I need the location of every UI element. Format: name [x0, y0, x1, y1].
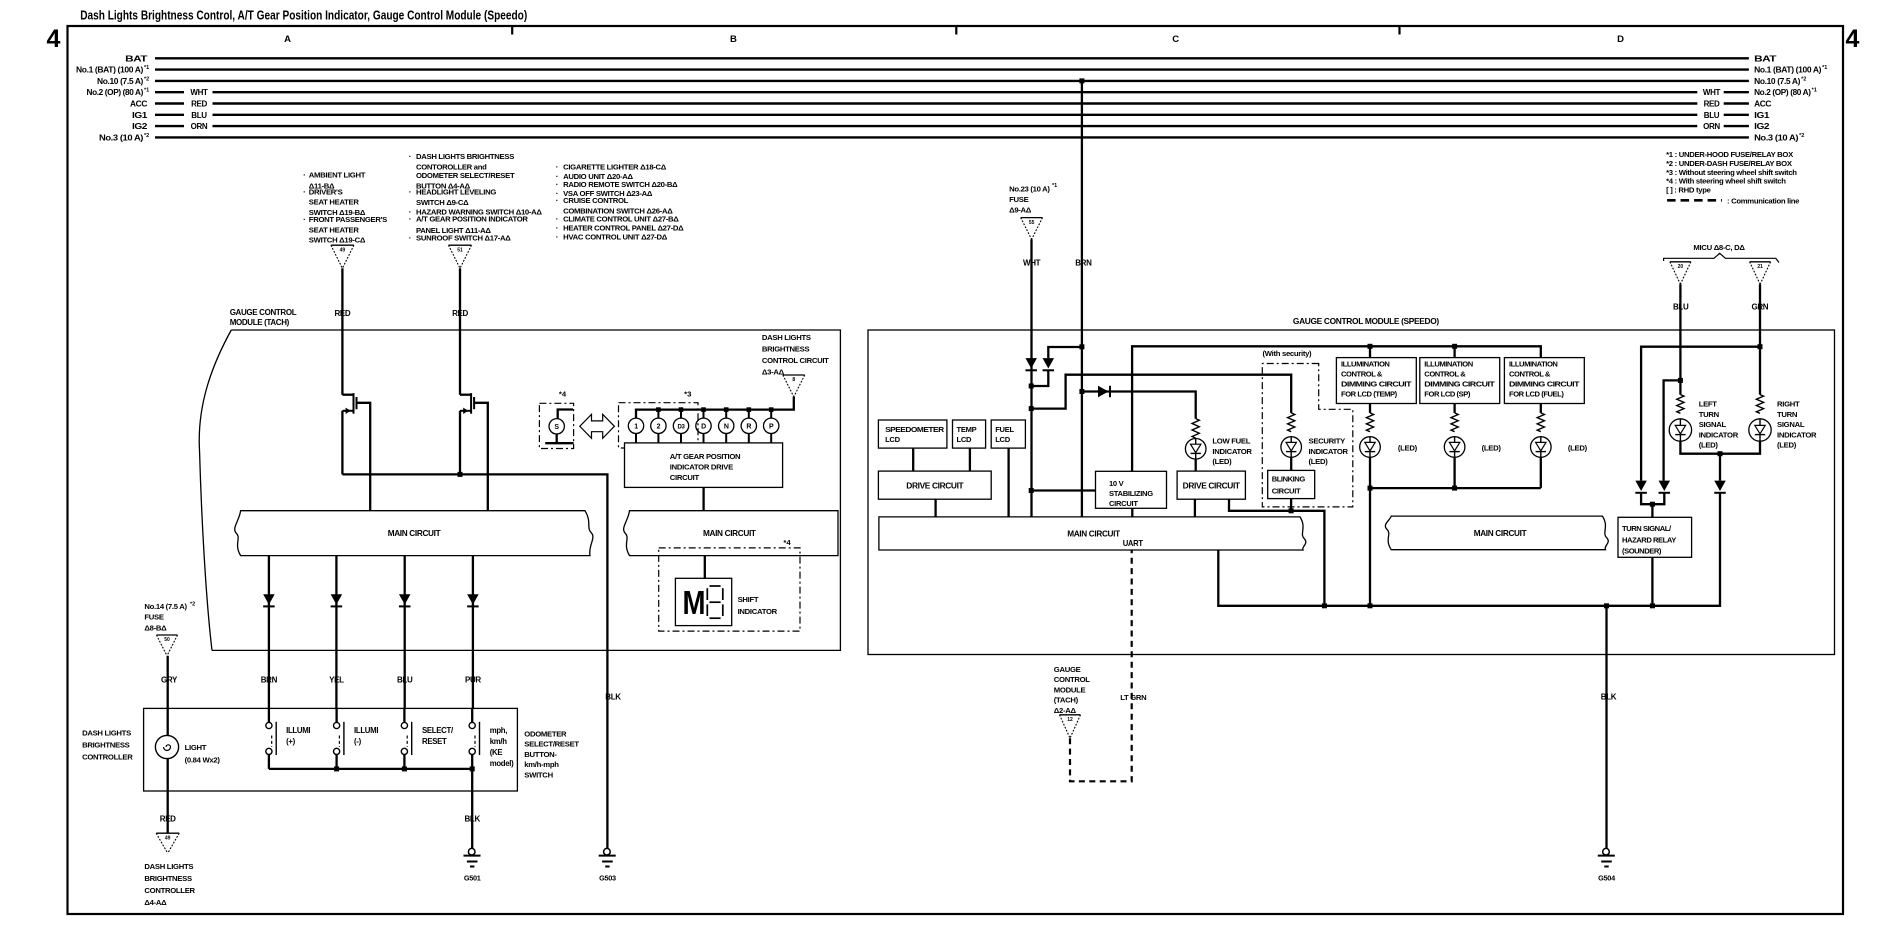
svg-text:HEADLIGHT LEVELING: HEADLIGHT LEVELING — [416, 187, 496, 196]
svg-text:55: 55 — [1029, 220, 1035, 226]
svg-text:GAUGE CONTROL MODULE (SPEEDO): GAUGE CONTROL MODULE (SPEEDO) — [1293, 316, 1439, 326]
svg-text:*2: *2 — [1801, 76, 1806, 82]
svg-text:IG1: IG1 — [132, 111, 148, 120]
svg-text:IG2: IG2 — [1754, 122, 1770, 131]
svg-text:*1: *1 — [144, 65, 149, 71]
svg-text:4: 4 — [1846, 25, 1860, 53]
svg-text:BUTTON-: BUTTON- — [524, 750, 557, 759]
svg-text:·: · — [556, 180, 559, 189]
svg-text:S: S — [554, 424, 559, 431]
svg-text:No.23 (10 A): No.23 (10 A) — [1009, 185, 1050, 194]
svg-text:LCD: LCD — [885, 435, 901, 444]
svg-text:No.1 (BAT) (100 A): No.1 (BAT) (100 A) — [76, 66, 144, 75]
svg-text:A/T GEAR POSITION INDICATOR: A/T GEAR POSITION INDICATOR — [416, 214, 528, 223]
svg-text:SELECT/: SELECT/ — [422, 726, 454, 735]
svg-text:*1 : UNDER-HOOD FUSE/RELAY BOX: *1 : UNDER-HOOD FUSE/RELAY BOX — [1666, 150, 1794, 159]
svg-text:INDICATOR: INDICATOR — [738, 607, 778, 616]
svg-text:No.3 (10 A): No.3 (10 A) — [99, 133, 144, 142]
svg-text:DIMMING CIRCUIT: DIMMING CIRCUIT — [1341, 380, 1412, 389]
svg-text:CONTROL: CONTROL — [1054, 675, 1091, 684]
svg-text:: Communication line: : Communication line — [1727, 196, 1800, 205]
svg-text:*4: *4 — [559, 390, 567, 399]
svg-text:CONTROL &: CONTROL & — [1341, 370, 1383, 379]
svg-text:BLU: BLU — [191, 111, 207, 120]
svg-text:Δ9-AΔ: Δ9-AΔ — [1009, 206, 1032, 215]
svg-text:(TACH): (TACH) — [1054, 696, 1079, 705]
svg-text:IG1: IG1 — [1754, 111, 1770, 120]
svg-text:BRN: BRN — [1075, 259, 1092, 268]
svg-text:MAIN CIRCUIT: MAIN CIRCUIT — [1474, 528, 1528, 538]
svg-text:ACC: ACC — [1754, 100, 1772, 109]
svg-text:YEL: YEL — [329, 675, 344, 684]
svg-text:RED: RED — [334, 309, 350, 318]
svg-text:*4: *4 — [783, 538, 791, 547]
svg-text:*3: *3 — [684, 389, 691, 398]
svg-text:*2: *2 — [144, 76, 149, 82]
svg-text:*3 : Without steering wheel sh: *3 : Without steering wheel shift switch — [1666, 168, 1797, 177]
svg-text:SELECT/RESET: SELECT/RESET — [524, 740, 579, 749]
svg-text:INDICATOR: INDICATOR — [1777, 430, 1817, 439]
svg-text:SPEEDOMETER: SPEEDOMETER — [885, 425, 945, 434]
svg-text:DASH LIGHTS: DASH LIGHTS — [762, 333, 811, 342]
svg-text:CONTROLLER: CONTROLLER — [144, 886, 195, 895]
svg-text:CIRCUIT: CIRCUIT — [1272, 487, 1301, 496]
svg-text:49: 49 — [340, 247, 346, 253]
svg-text:M: M — [683, 584, 706, 621]
svg-text:ILLUMI: ILLUMI — [354, 726, 378, 735]
svg-text:BRIGHTNESS: BRIGHTNESS — [144, 874, 192, 883]
svg-text:TURN: TURN — [1699, 410, 1720, 419]
svg-text:BAT: BAT — [125, 54, 147, 63]
svg-text:(-): (-) — [354, 737, 362, 746]
svg-text:ORN: ORN — [1703, 122, 1720, 131]
svg-text:ILLUMI: ILLUMI — [286, 726, 310, 735]
svg-text:DRIVE CIRCUIT: DRIVE CIRCUIT — [1183, 481, 1241, 490]
svg-text:SWITCH: SWITCH — [524, 770, 553, 779]
svg-text:10 V: 10 V — [1109, 479, 1125, 488]
svg-text:LCD: LCD — [995, 435, 1011, 444]
svg-text:D: D — [1617, 34, 1624, 45]
svg-text:C: C — [1172, 34, 1179, 45]
svg-text:(0.84 Wx2): (0.84 Wx2) — [185, 756, 221, 765]
svg-text:No.3 (10 A): No.3 (10 A) — [1754, 133, 1799, 142]
svg-text:CIRCUIT: CIRCUIT — [1109, 499, 1138, 508]
svg-text:*2: *2 — [1799, 133, 1804, 139]
svg-text:LIGHT: LIGHT — [185, 743, 207, 752]
svg-text:BRN: BRN — [261, 675, 278, 684]
svg-text:1: 1 — [634, 424, 638, 431]
svg-text:(SOUNDER): (SOUNDER) — [1622, 547, 1662, 556]
svg-text:RED: RED — [1704, 100, 1720, 109]
svg-text:RED: RED — [452, 309, 468, 318]
svg-text:SUNROOF SWITCH Δ17-AΔ: SUNROOF SWITCH Δ17-AΔ — [416, 234, 511, 243]
svg-text:Δ8-BΔ: Δ8-BΔ — [144, 624, 167, 633]
svg-text:Δ3-AΔ: Δ3-AΔ — [762, 367, 785, 376]
svg-text:CONTOROLLER and: CONTOROLLER and — [416, 162, 487, 171]
svg-text:TURN: TURN — [1777, 410, 1798, 419]
svg-text:12: 12 — [1067, 717, 1073, 723]
svg-text:GAUGE CONTROL: GAUGE CONTROL — [230, 308, 297, 317]
svg-text:·: · — [556, 215, 559, 224]
svg-text:HAZARD RELAY: HAZARD RELAY — [1622, 535, 1676, 544]
svg-text:SWITCH Δ19-CΔ: SWITCH Δ19-CΔ — [309, 235, 366, 244]
svg-text:GAUGE: GAUGE — [1054, 665, 1081, 674]
svg-text:*1: *1 — [1052, 183, 1057, 189]
svg-text:FUSE: FUSE — [144, 613, 163, 622]
svg-text:km/h-mph: km/h-mph — [524, 760, 559, 769]
svg-text:DRIVE CIRCUIT: DRIVE CIRCUIT — [906, 481, 964, 490]
svg-text:·: · — [556, 232, 559, 241]
svg-text:BRIGHTNESS: BRIGHTNESS — [82, 741, 130, 750]
svg-text:A/T GEAR POSITION: A/T GEAR POSITION — [670, 452, 741, 461]
svg-text:BLU: BLU — [1704, 111, 1720, 120]
svg-text:LEFT: LEFT — [1699, 400, 1718, 409]
svg-text:TEMP: TEMP — [957, 425, 977, 434]
svg-text:CRUISE CONTROL: CRUISE CONTROL — [563, 196, 629, 205]
svg-text:·: · — [303, 215, 306, 224]
svg-text:·: · — [409, 234, 412, 243]
svg-text:SECURITY: SECURITY — [1309, 437, 1346, 446]
svg-text:CONTROL &: CONTROL & — [1424, 370, 1466, 379]
svg-text:LT GRN: LT GRN — [1120, 693, 1147, 702]
svg-text:P: P — [769, 424, 774, 431]
svg-text:WHT: WHT — [190, 88, 208, 97]
svg-text:BLK: BLK — [464, 814, 480, 823]
svg-text:2: 2 — [657, 424, 661, 431]
svg-text:*4 : With steering wheel shift: *4 : With steering wheel shift switch — [1666, 177, 1786, 186]
svg-text:[ ] : RHD type: [ ] : RHD type — [1666, 186, 1712, 195]
svg-text:*2 : UNDER-DASH FUSE/RELAY BOX: *2 : UNDER-DASH FUSE/RELAY BOX — [1666, 159, 1793, 168]
svg-text:MODULE: MODULE — [1054, 685, 1086, 694]
svg-text:G503: G503 — [599, 873, 616, 882]
svg-text:ILLUMINATION: ILLUMINATION — [1341, 360, 1389, 369]
svg-text:LOW FUEL: LOW FUEL — [1212, 437, 1250, 446]
svg-text:AMBIENT LIGHT: AMBIENT LIGHT — [309, 171, 366, 180]
svg-text:(LED): (LED) — [1212, 457, 1232, 466]
svg-text:TURN SIGNAL/: TURN SIGNAL/ — [1622, 524, 1672, 533]
svg-text:PUR: PUR — [465, 675, 481, 684]
svg-text:·: · — [409, 152, 412, 161]
svg-text:FOR LCD (SP): FOR LCD (SP) — [1424, 390, 1471, 399]
svg-text:No.1 (BAT) (100 A): No.1 (BAT) (100 A) — [1754, 66, 1822, 75]
svg-text:HEATER CONTROL PANEL Δ27-DΔ: HEATER CONTROL PANEL Δ27-DΔ — [563, 224, 684, 233]
svg-text:D: D — [701, 424, 706, 431]
svg-text:No.2 (OP) (80 A): No.2 (OP) (80 A) — [87, 88, 144, 97]
svg-text:SIGNAL: SIGNAL — [1699, 420, 1727, 429]
svg-text:INDICATOR: INDICATOR — [1309, 447, 1349, 456]
svg-text:21: 21 — [1757, 264, 1763, 270]
svg-text:(LED): (LED) — [1482, 444, 1502, 453]
svg-text:N: N — [724, 424, 729, 431]
svg-text:DIMMING CIRCUIT: DIMMING CIRCUIT — [1509, 380, 1580, 389]
svg-text:·: · — [409, 214, 412, 223]
svg-text:STABILIZING: STABILIZING — [1109, 489, 1153, 498]
svg-text:Δ2-AΔ: Δ2-AΔ — [1054, 706, 1077, 715]
svg-text:(LED): (LED) — [1398, 444, 1418, 453]
svg-text:FUEL: FUEL — [995, 425, 1014, 434]
svg-text:CIRCUIT: CIRCUIT — [670, 473, 700, 482]
svg-text:·: · — [556, 196, 559, 205]
svg-text:ORN: ORN — [191, 122, 208, 131]
svg-text:SEAT HEATER: SEAT HEATER — [309, 225, 360, 234]
svg-text:No.2 (OP) (80 A): No.2 (OP) (80 A) — [1754, 88, 1811, 97]
svg-text:BLU: BLU — [397, 675, 413, 684]
svg-text:DASH LIGHTS: DASH LIGHTS — [144, 862, 193, 871]
svg-text:DASH LIGHTS BRIGHTNESS: DASH LIGHTS BRIGHTNESS — [416, 152, 514, 161]
svg-text:8: 8 — [792, 377, 795, 383]
svg-text:ODOMETER SELECT/RESET: ODOMETER SELECT/RESET — [416, 171, 515, 180]
svg-text:MAIN CIRCUIT: MAIN CIRCUIT — [388, 528, 442, 538]
svg-text:(LED): (LED) — [1309, 457, 1329, 466]
svg-text:*1: *1 — [144, 88, 149, 94]
svg-text:IG2: IG2 — [132, 122, 148, 131]
svg-text:R: R — [746, 424, 751, 431]
svg-text:Δ4-AΔ: Δ4-AΔ — [144, 898, 167, 907]
svg-text:CONTROLLER: CONTROLLER — [82, 753, 133, 762]
svg-text:FOR LCD (FUEL): FOR LCD (FUEL) — [1509, 390, 1564, 399]
svg-text:A: A — [284, 34, 291, 45]
svg-text:*1: *1 — [1812, 88, 1817, 94]
svg-text:FRONT PASSENGER'S: FRONT PASSENGER'S — [309, 215, 387, 224]
svg-text:Dash Lights Brightness Control: Dash Lights Brightness Control, A/T Gear… — [80, 9, 527, 23]
svg-text:(LED): (LED) — [1699, 441, 1719, 450]
svg-text:(With security): (With security) — [1263, 349, 1313, 358]
svg-text:49: 49 — [165, 835, 171, 841]
svg-text:CLIMATE CONTROL UNIT Δ27-BΔ: CLIMATE CONTROL UNIT Δ27-BΔ — [563, 215, 679, 224]
svg-text:BRIGHTNESS: BRIGHTNESS — [762, 345, 810, 354]
svg-text:No.14 (7.5 A): No.14 (7.5 A) — [144, 602, 187, 611]
svg-text:HVAC CONTROL UNIT Δ27-DΔ: HVAC CONTROL UNIT Δ27-DΔ — [563, 232, 668, 241]
svg-text:DRIVER'S: DRIVER'S — [309, 187, 343, 196]
svg-text:mph,: mph, — [490, 726, 508, 735]
svg-text:DASH LIGHTS: DASH LIGHTS — [82, 729, 131, 738]
svg-text:FUSE: FUSE — [1009, 195, 1028, 204]
svg-text:DIMMING CIRCUIT: DIMMING CIRCUIT — [1424, 380, 1495, 389]
svg-text:MAIN CIRCUIT: MAIN CIRCUIT — [703, 528, 757, 538]
svg-text:(LED): (LED) — [1568, 444, 1588, 453]
svg-text:MICU Δ8-C, DΔ: MICU Δ8-C, DΔ — [1693, 243, 1745, 252]
svg-text:4: 4 — [47, 25, 61, 53]
svg-text:FOR LCD (TEMP): FOR LCD (TEMP) — [1341, 390, 1398, 399]
svg-text:ACC: ACC — [130, 100, 148, 109]
svg-text:model): model) — [490, 759, 514, 768]
svg-text:LCD: LCD — [957, 435, 973, 444]
svg-text:G504: G504 — [1598, 873, 1616, 882]
svg-text:UART: UART — [1123, 538, 1144, 548]
svg-text:ILLUMINATION: ILLUMINATION — [1424, 360, 1472, 369]
svg-text:50: 50 — [164, 637, 170, 643]
svg-text:BLK: BLK — [605, 693, 621, 702]
svg-text:·: · — [303, 187, 306, 196]
svg-text:BAT: BAT — [1754, 54, 1776, 63]
svg-text:D3: D3 — [677, 425, 685, 431]
svg-text:(KE: (KE — [490, 748, 503, 757]
svg-text:BLINKING: BLINKING — [1272, 475, 1306, 484]
svg-text:RESET: RESET — [422, 737, 447, 746]
svg-text:INDICATOR: INDICATOR — [1212, 447, 1252, 456]
svg-text:*2: *2 — [190, 602, 195, 608]
svg-text:CONTROL CIRCUIT: CONTROL CIRCUIT — [762, 356, 829, 365]
svg-text:·: · — [556, 163, 559, 172]
svg-text:CIGARETTE LIGHTER Δ18-CΔ: CIGARETTE LIGHTER Δ18-CΔ — [563, 163, 667, 172]
svg-text:(+): (+) — [286, 737, 296, 746]
svg-text:ILLUMINATION: ILLUMINATION — [1509, 360, 1557, 369]
svg-text:No.10 (7.5 A): No.10 (7.5 A) — [97, 77, 144, 86]
svg-text:·: · — [556, 224, 559, 233]
svg-text:GRY: GRY — [161, 675, 178, 684]
svg-text:*2: *2 — [144, 133, 149, 139]
svg-text:MAIN CIRCUIT: MAIN CIRCUIT — [1067, 529, 1121, 539]
svg-text:BLU: BLU — [1673, 303, 1689, 312]
svg-text:No.10 (7.5 A): No.10 (7.5 A) — [1754, 77, 1801, 86]
svg-text:WHT: WHT — [1703, 88, 1721, 97]
svg-text:MODULE (TACH): MODULE (TACH) — [230, 318, 290, 327]
svg-text:SHIFT: SHIFT — [738, 595, 759, 604]
svg-text:km/h: km/h — [490, 737, 508, 746]
svg-text:G501: G501 — [464, 873, 481, 882]
svg-text:WHT: WHT — [1023, 259, 1041, 268]
svg-text:CONTROL &: CONTROL & — [1509, 370, 1551, 379]
svg-text:20: 20 — [1678, 264, 1684, 270]
svg-text:SEAT HEATER: SEAT HEATER — [309, 198, 360, 207]
svg-text:GRN: GRN — [1752, 303, 1769, 312]
svg-text:*1: *1 — [1822, 65, 1827, 71]
svg-text:RED: RED — [191, 100, 207, 109]
svg-text:51: 51 — [457, 247, 463, 253]
svg-text:BLK: BLK — [1601, 693, 1617, 702]
svg-text:INDICATOR: INDICATOR — [1699, 430, 1739, 439]
svg-text:RIGHT: RIGHT — [1777, 400, 1800, 409]
svg-text:·: · — [303, 171, 306, 180]
svg-text:·: · — [409, 187, 412, 196]
svg-text:SIGNAL: SIGNAL — [1777, 420, 1805, 429]
svg-text:(LED): (LED) — [1777, 441, 1797, 450]
svg-text:RED: RED — [160, 814, 176, 823]
svg-text:B: B — [730, 34, 737, 45]
svg-text:INDICATOR DRIVE: INDICATOR DRIVE — [670, 463, 733, 472]
svg-text:SWITCH Δ9-CΔ: SWITCH Δ9-CΔ — [416, 198, 469, 207]
svg-text:RADIO REMOTE SWITCH Δ20-BΔ: RADIO REMOTE SWITCH Δ20-BΔ — [563, 180, 678, 189]
svg-text:ODOMETER: ODOMETER — [524, 730, 567, 739]
